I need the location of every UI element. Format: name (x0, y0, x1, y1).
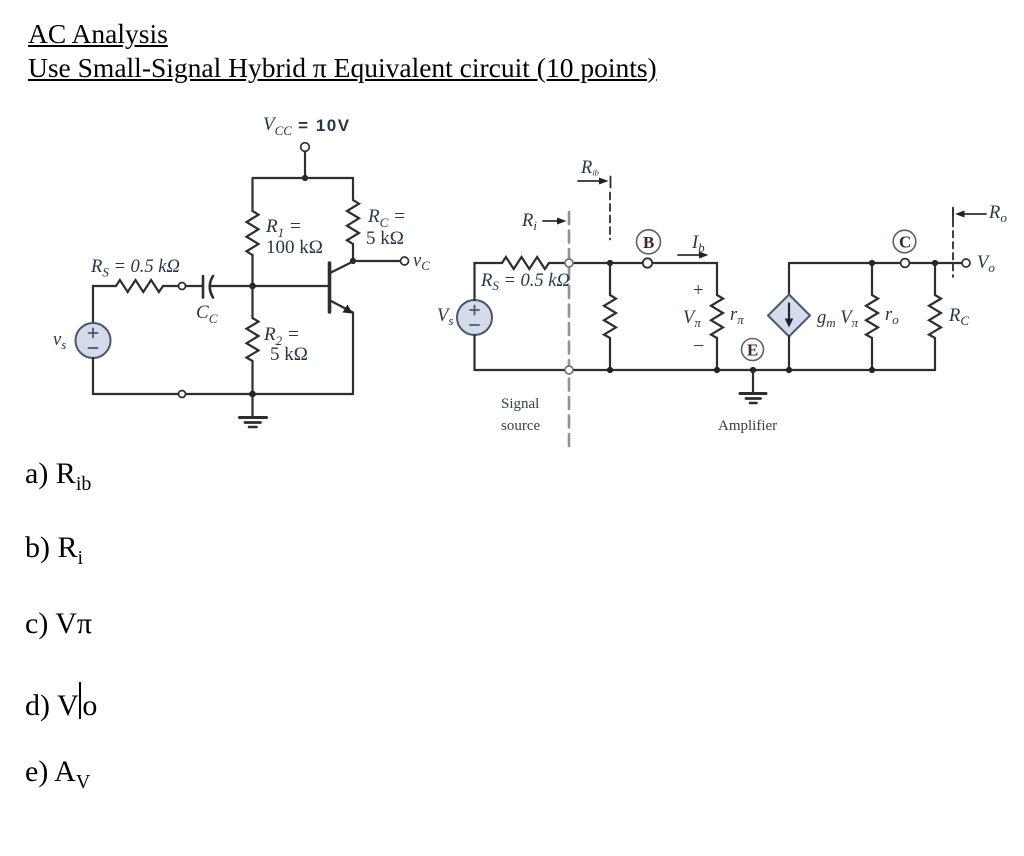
label signal source (501, 396, 540, 434)
junction dot top rail (302, 175, 308, 181)
label Vpi minus (693, 335, 704, 355)
wire R1 top (251, 178, 253, 211)
junction dot rpi bottom (714, 367, 720, 373)
svg-text:+: + (693, 281, 703, 301)
arrow Ro (953, 208, 986, 221)
resistor R2 (247, 318, 259, 361)
resistor RS2 (502, 257, 549, 269)
wire VCC down (304, 152, 306, 179)
arrow Rib (578, 177, 611, 188)
label rpi (730, 305, 744, 327)
arrow Ib (678, 252, 709, 259)
svg-text:Vπ: Vπ (683, 308, 701, 330)
svg-text:Vs: Vs (437, 306, 453, 328)
wire output top rail (789, 262, 962, 264)
svg-text:B: B (643, 233, 654, 252)
wire RC top (352, 178, 354, 200)
label R2 value (263, 324, 308, 365)
label vC (413, 251, 430, 273)
resistor RC (347, 200, 359, 244)
terminal bottom rail (179, 391, 186, 398)
label R1 value (265, 216, 323, 258)
svg-text:100 kΩ: 100 kΩ (266, 237, 323, 258)
junction dot ro top (869, 260, 875, 266)
svg-text:vs: vs (53, 330, 66, 352)
wire R1 bottom (251, 255, 253, 286)
svg-text:Ro: Ro (988, 203, 1007, 225)
circled node E (742, 339, 764, 361)
svg-text:RC: RC (948, 306, 969, 328)
source vs (76, 323, 111, 358)
resistor rpi (711, 295, 723, 338)
label gmVpi (817, 308, 859, 330)
junction dot ground node E (750, 367, 756, 373)
question d (25, 682, 97, 723)
resistor R1 (247, 211, 259, 255)
terminal Vo (962, 259, 970, 267)
wire collector to terminal (353, 260, 400, 262)
junction dot base node (249, 283, 256, 290)
dashed line Ro (952, 209, 954, 277)
label Rib (580, 158, 599, 178)
wire rpi bottom (716, 338, 718, 370)
label Ri (521, 211, 537, 233)
svg-text:RS = 0.5 kΩ: RS = 0.5 kΩ (90, 257, 180, 280)
wire circle to cap (186, 285, 203, 287)
wire Vs2 bottom (473, 335, 475, 370)
circled node B (637, 230, 661, 254)
svg-text:C: C (899, 233, 911, 252)
junction dot RC2 top (932, 260, 938, 266)
label RS left (90, 257, 180, 280)
wire RS to terminal (163, 285, 179, 287)
source Vs2 (457, 300, 492, 335)
junction dot R1R2 bottom (607, 367, 613, 373)
wire RS2 to rpi corner (549, 262, 717, 264)
transistor Q1 collector lead (331, 262, 353, 273)
wire rpi down (716, 263, 718, 295)
arrow Ri (543, 218, 567, 225)
resistor R1R2 (604, 295, 616, 338)
label Vpi (683, 308, 701, 330)
dependent source gmVpi diamond (768, 295, 810, 337)
wire R2 top (251, 286, 253, 318)
wire emitter down (352, 313, 354, 394)
label Vpi plus (693, 281, 703, 301)
wire R2 bottom (251, 361, 253, 394)
junction dot ro bottom (869, 367, 875, 373)
terminal after RS (179, 283, 186, 290)
resistor RC2 (929, 295, 941, 338)
svg-text:5 kΩ: 5 kΩ (366, 228, 404, 249)
svg-text:Ri: Ri (521, 211, 537, 233)
label Vs right (437, 306, 453, 328)
wire vs to RS (93, 286, 116, 323)
wire bottom rail left (93, 393, 353, 395)
label CC (196, 302, 218, 326)
svg-text:gm Vπ: gm Vπ (817, 308, 859, 330)
wire vs bottom (92, 358, 94, 394)
wire bottom rail right (475, 369, 936, 371)
label ro (885, 305, 899, 327)
svg-text:RS = 0.5 kΩ: RS = 0.5 kΩ (480, 271, 570, 293)
label Ib (691, 233, 705, 255)
svg-text:Ib: Ib (691, 233, 705, 255)
capacitor CC right plate (210, 276, 213, 298)
question e (25, 755, 90, 794)
capacitor CC left plate (202, 276, 205, 298)
svg-text:VCC = 10V: VCC = 10V (263, 114, 351, 138)
transistor Q1 emitter lead (331, 301, 353, 314)
junction dot collector (350, 258, 356, 264)
svg-text:–: – (693, 335, 704, 355)
terminal node C (901, 259, 910, 268)
label amplifier (718, 418, 777, 434)
svg-text:Rib: Rib (580, 158, 599, 178)
wire Vs2 top (475, 263, 503, 300)
VCC terminal (301, 143, 310, 152)
resistor RS (116, 280, 163, 292)
wire ro bottom (871, 338, 873, 370)
question b (25, 531, 83, 570)
label vs left (53, 330, 66, 352)
svg-text:vC: vC (413, 251, 430, 273)
wire RC2 bottom (934, 338, 936, 370)
wire diamond bottom (788, 337, 790, 371)
node letter B (643, 233, 654, 252)
svg-text:Vo: Vo (977, 253, 995, 275)
wire cap to base node (210, 285, 253, 287)
dashed line Rib (609, 193, 611, 240)
svg-text:ro: ro (885, 305, 899, 327)
svg-text:Amplifier: Amplifier (718, 418, 777, 434)
question c (25, 607, 92, 641)
wire RC2 down (934, 263, 936, 295)
title line 2 (28, 52, 657, 84)
svg-text:source: source (501, 418, 540, 434)
svg-text:E: E (747, 341, 758, 360)
wire ro down (871, 263, 873, 295)
node letter E (747, 341, 758, 360)
title line 1 (28, 18, 168, 50)
label RC2 (948, 306, 969, 328)
ground right (740, 370, 766, 403)
terminal on separator top (565, 259, 573, 267)
label RS right (480, 271, 570, 293)
wire top rail (253, 177, 354, 179)
wire diamond top (788, 263, 790, 295)
label VCC (263, 114, 351, 138)
svg-text:RC =: RC = (367, 206, 406, 230)
wire RC bottom (352, 244, 354, 261)
label Ro (988, 203, 1007, 225)
label RC value (366, 206, 406, 249)
svg-text:rπ: rπ (730, 305, 744, 327)
terminal node B (643, 258, 652, 267)
svg-text:5 kΩ: 5 kΩ (270, 344, 308, 365)
terminal vC (401, 257, 409, 265)
circled node C (893, 230, 916, 253)
label Vo (977, 253, 995, 275)
svg-text:CC: CC (196, 302, 218, 326)
transistor Q1 base bar (328, 263, 332, 312)
resistor ro (866, 295, 878, 338)
junction dot B branch top (607, 260, 613, 266)
svg-text:Signal: Signal (501, 396, 539, 412)
wire R1R2 top (609, 263, 611, 295)
node letter C (899, 233, 911, 252)
wire base (253, 285, 329, 287)
wire R1R2 bottom (609, 338, 611, 370)
dashed separator signal source (568, 212, 571, 448)
junction dot ground node (249, 391, 256, 398)
question a (25, 457, 91, 496)
ground left (240, 394, 267, 427)
terminal on separator bottom (565, 366, 573, 374)
junction dot diamond bottom (786, 367, 792, 373)
